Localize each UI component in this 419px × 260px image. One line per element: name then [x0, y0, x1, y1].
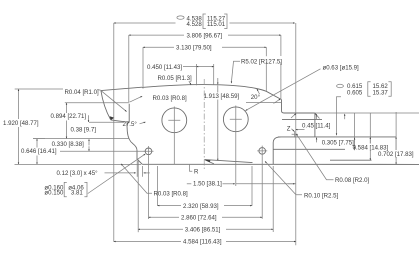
- part lip underside line: [282, 118, 322, 120]
- angle leg line to face: [101, 91, 127, 112]
- small hole right: [259, 148, 266, 155]
- ext line x143: [142, 47, 144, 88]
- dim 1.920 line: [18, 89, 20, 119]
- svg-text:R0.04 [R1.0]: R0.04 [R1.0]: [65, 89, 100, 96]
- ext small hole right down: [261, 157, 263, 219]
- part right face upper: [282, 100, 315, 113]
- tick arrow under panel top: [316, 138, 318, 143]
- dim 2.320 line: [158, 205, 182, 207]
- ext x157.5: [157, 166, 159, 206]
- detail target cross: [292, 131, 298, 137]
- dim R0.03 lower leader: [121, 164, 152, 193]
- svg-text:R5.02 [R127.5]: R5.02 [R127.5]: [241, 59, 282, 66]
- dim 3.406 line: [138, 228, 183, 230]
- svg-text:0.894 [22.71]: 0.894 [22.71]: [51, 113, 87, 120]
- svg-text:1.920 [48.77]: 1.920 [48.77]: [3, 120, 39, 127]
- blade rear face and lower S-curve: [127, 104, 142, 165]
- svg-text:4.584 [116.43]: 4.584 [116.43]: [183, 239, 222, 246]
- dim R0.05 leader: [189, 81, 191, 85]
- crown arc R5.02: [142, 85, 282, 100]
- svg-text:R0.05 [R1.3]: R0.05 [R1.3]: [158, 75, 193, 82]
- dim 3.806 line: [129, 34, 184, 36]
- big hole right: [223, 107, 248, 132]
- sliver tip: [205, 160, 211, 163]
- blade bottom flat: [111, 120, 129, 122]
- ledge line right: [330, 159, 372, 161]
- ext small hole left down: [148, 157, 150, 219]
- left stack: ext bottom: [15, 163, 142, 165]
- small hole left crosshair: [144, 146, 154, 157]
- tick arrow at step end: [316, 114, 318, 119]
- dim 0.894 line: [66, 103, 68, 113]
- dim 0.615 bracket left: [368, 82, 371, 97]
- dim 0.450 ext lines: [196, 64, 213, 85]
- dim dia0.63 leader: [246, 69, 321, 111]
- svg-text:0.450 [11.43]: 0.450 [11.43]: [147, 64, 182, 71]
- dim 0.12 line: [105, 172, 136, 174]
- dim 4.538 bracket right: [224, 14, 227, 29]
- dim 0.702 line: [395, 112, 397, 150]
- dim 0.615 leader: [337, 97, 342, 135]
- dia 0.160 leader: [88, 154, 146, 194]
- centerline vertical: [203, 79, 205, 171]
- dim R5.02 leader: [231, 61, 240, 83]
- dim 1.913 line lower: [217, 100, 219, 161]
- part top crown surface: [101, 87, 142, 90]
- big hole left crosshair: [168, 107, 180, 165]
- dim 0.646 line: [36, 139, 38, 148]
- svg-text:ø0.63 [ø15.9]: ø0.63 [ø15.9]: [323, 65, 360, 72]
- svg-text:115.01: 115.01: [207, 21, 226, 28]
- blade lower tip: [110, 116, 115, 120]
- svg-text:0.305 [7.75]: 0.305 [7.75]: [322, 139, 354, 146]
- ext line right 3.130: [265, 47, 267, 91]
- ext line top left tip: [113, 23, 115, 94]
- dim 0.615 oval symbol: [337, 84, 344, 87]
- dim 0.330 line: [88, 139, 90, 145]
- ext line right 4.538: [295, 23, 297, 245]
- dim 3.130 line: [143, 46, 174, 48]
- dim 0.305 arrows: [354, 113, 356, 150]
- dim 0.38 arrows: [88, 115, 90, 122]
- svg-text:R0.03 [R0.8]: R0.03 [R0.8]: [153, 95, 188, 102]
- tick arrow at line A end: [344, 114, 346, 119]
- dim 4.538 oval symbol: [177, 16, 184, 19]
- svg-text:2.320 [58.93]: 2.320 [58.93]: [183, 203, 219, 210]
- part bottom edge with center notch: [142, 163, 419, 165]
- svg-text:1.50 [38.1]: 1.50 [38.1]: [193, 181, 222, 188]
- svg-text:3.806 [96.67]: 3.806 [96.67]: [187, 32, 223, 39]
- svg-text:R: R: [194, 169, 199, 176]
- dim 20deg leader: [257, 89, 260, 94]
- svg-text:0.12 [3.0] x 45°: 0.12 [3.0] x 45°: [57, 170, 99, 177]
- svg-text:ø0.150: ø0.150: [44, 190, 64, 197]
- svg-text:0.702 [17.83]: 0.702 [17.83]: [378, 151, 414, 158]
- ext ledge: [33, 138, 129, 140]
- dim 0.45 arrows: [291, 114, 296, 119]
- ext x113.5: [113, 94, 115, 242]
- dim 20deg arc tail: [274, 99, 281, 104]
- dim 1.913 line upper: [217, 78, 219, 84]
- R0.03 pointer diagonal: [129, 96, 142, 102]
- dim 0.615 bracket right: [388, 82, 391, 97]
- ext 0.12 right: [142, 166, 144, 177]
- svg-text:0.330 [8.38]: 0.330 [8.38]: [52, 141, 84, 148]
- dim 27.5deg leader: [140, 122, 146, 124]
- small hole left: [145, 148, 152, 155]
- dim 1.50 stub: [187, 183, 192, 185]
- part jaw vertical: [314, 113, 316, 137]
- dia 0.160 bracket right: [84, 182, 87, 196]
- svg-text:15.37: 15.37: [373, 90, 389, 97]
- dim 4.538 bracket left: [203, 14, 206, 29]
- svg-text:0.605: 0.605: [347, 90, 363, 97]
- dim 4.538/4.528 line: [114, 22, 176, 24]
- ext line x128.8: [128, 35, 130, 102]
- dim 4.584 line: [114, 241, 181, 243]
- dim 0.45 leader underline: [296, 129, 305, 131]
- hook fillet bottom right: [273, 137, 280, 164]
- step surface ext right: [315, 112, 419, 114]
- dim 0.450 arrows: [196, 66, 213, 68]
- ext step: [89, 121, 123, 123]
- note R at bottom notch: [190, 165, 193, 172]
- svg-text:3.130 [79.50]: 3.130 [79.50]: [176, 45, 212, 52]
- dia 0.160 bracket left: [64, 182, 67, 196]
- ext underside: [65, 102, 129, 104]
- svg-text:0.646 [16.41]: 0.646 [16.41]: [21, 148, 57, 155]
- svg-text:0.45 [11.4]: 0.45 [11.4]: [302, 123, 331, 130]
- dim R0.08 leader: [296, 134, 333, 180]
- bottom relief sliver: [205, 160, 253, 164]
- dim 0.584 line: [369, 113, 371, 144]
- ext x138.2: [137, 160, 139, 232]
- panel top surface: [278, 136, 396, 138]
- dim 0.450 line: [183, 66, 196, 68]
- svg-text:20°: 20°: [251, 94, 261, 101]
- ext hole center left: [60, 150, 145, 152]
- big hole right crosshair: [230, 106, 242, 187]
- small hole right crosshair: [257, 146, 267, 157]
- panel groove line: [274, 148, 346, 150]
- ext x252: [251, 166, 253, 206]
- svg-text:R0.10 [R2.5]: R0.10 [R2.5]: [304, 192, 339, 199]
- 20deg reference line: [246, 102, 282, 104]
- svg-text:3.406 [86.51]: 3.406 [86.51]: [185, 227, 221, 234]
- svg-text:0.38 [9.7]: 0.38 [9.7]: [71, 127, 97, 134]
- dim 0.12 right arrow: [144, 172, 150, 174]
- svg-text:R0.03 [R0.8]: R0.03 [R0.8]: [154, 190, 189, 197]
- svg-text:27.5°: 27.5°: [123, 121, 138, 128]
- part left blade concave front face: [101, 91, 111, 120]
- ext 0.12 left: [136, 161, 138, 177]
- svg-text:Z: Z: [287, 125, 291, 132]
- svg-text:R0.08 [R2.0]: R0.08 [R2.0]: [335, 177, 370, 184]
- left stack: ext top: [15, 89, 101, 90]
- ext x273.2: [272, 166, 274, 232]
- dim 2.860 line: [149, 216, 180, 218]
- dim R0.10 leader: [265, 161, 302, 195]
- ext line right 3.806: [280, 35, 282, 99]
- big hole left: [162, 108, 187, 133]
- svg-text:1.913 [48.59]: 1.913 [48.59]: [204, 93, 240, 100]
- ext 0.646 top: [33, 138, 45, 140]
- svg-text:3.81: 3.81: [71, 190, 83, 197]
- dim 1.50 line: [223, 183, 236, 185]
- svg-text:2.860 [72.64]: 2.860 [72.64]: [181, 215, 217, 222]
- svg-text:4.528: 4.528: [187, 21, 203, 28]
